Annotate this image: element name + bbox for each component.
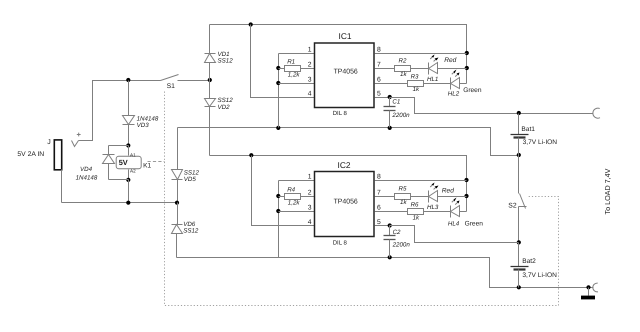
node VD5 ground rail (175, 201, 179, 205)
node VD2 rail to IC2 pin4 riser (249, 153, 253, 157)
diode VD5 (172, 128, 183, 203)
node Bat1 minus (517, 153, 521, 157)
linkage K1 dashes (148, 161, 165, 163)
svg-text:TP4056: TP4056 (334, 68, 358, 75)
node Bat2 plus (517, 240, 521, 244)
wire A1 (128, 146, 130, 156)
node IC2 pin3 (276, 209, 280, 213)
node IC1 pin3 (276, 81, 280, 85)
LED HL1 (429, 55, 467, 75)
node Bat2 minus (517, 285, 521, 289)
IC2 pin numbers (308, 174, 381, 227)
relay K1 coil box (116, 156, 141, 169)
node IC2 right rail HL3 (464, 194, 468, 198)
node Bat1 plus (517, 111, 521, 115)
svg-text:2200n: 2200n (392, 241, 411, 248)
switch S1 blade (161, 75, 179, 81)
wire relay top to VD4 (109, 145, 129, 147)
output plug minus (593, 283, 598, 292)
svg-text:1k: 1k (413, 86, 420, 93)
node relay top (126, 143, 130, 147)
svg-text:7: 7 (377, 62, 381, 69)
svg-text:IC2: IC2 (338, 160, 351, 170)
svg-text:HL4: HL4 (448, 221, 460, 228)
diode VD1 (205, 25, 216, 81)
svg-text:DIL 8: DIL 8 (333, 110, 348, 117)
node C1 bottom (388, 126, 392, 130)
svg-text:HL2: HL2 (448, 90, 460, 97)
resistor R1 (279, 68, 285, 70)
node S1-VD1-VD2 (208, 78, 212, 82)
svg-text:Red: Red (444, 57, 456, 64)
svg-text:1: 1 (308, 47, 312, 54)
node right rail pin8 (465, 51, 469, 55)
svg-text:Green: Green (463, 87, 482, 94)
wire IC2 pin5 (375, 225, 390, 227)
svg-text:TP4056: TP4056 (334, 199, 358, 206)
node R1 left (276, 66, 280, 70)
svg-text:3,7V Li-ION: 3,7V Li-ION (523, 139, 558, 146)
svg-text:IC1: IC1 (339, 31, 352, 41)
svg-text:1k: 1k (413, 214, 420, 221)
diode VD6 (172, 203, 183, 258)
node output minus (586, 285, 590, 289)
svg-text:To LOAD 7,4V: To LOAD 7,4V (603, 168, 612, 214)
resistor R5 (375, 196, 395, 198)
svg-text:C1: C1 (392, 99, 400, 106)
svg-text:5V: 5V (119, 158, 128, 167)
wire IC2 pins 1-3 chain (278, 181, 280, 258)
svg-text:R5: R5 (399, 186, 407, 193)
battery Bat2 (511, 243, 529, 288)
resistor R6 (375, 211, 408, 213)
node C1 top (388, 95, 392, 99)
svg-text:VD5: VD5 (184, 176, 197, 183)
node R4 left (276, 194, 280, 198)
wire pin5 to Bat1 plus (390, 98, 593, 114)
node top rail to pin4 riser (249, 22, 253, 26)
wire IC2 pin1 (279, 180, 315, 182)
capacitor C2 (384, 226, 396, 258)
svg-text:8: 8 (377, 47, 381, 54)
svg-text:S1: S1 (167, 83, 176, 90)
svg-text:SS12: SS12 (218, 58, 234, 65)
svg-text:7: 7 (377, 190, 381, 197)
svg-text:8: 8 (377, 174, 381, 181)
node C2 bottom (388, 255, 392, 259)
svg-text:HL3: HL3 (427, 204, 439, 211)
svg-text:6: 6 (377, 205, 381, 212)
diode VD3 (123, 81, 135, 146)
svg-text:1,2k: 1,2k (288, 71, 301, 78)
node IC2 right rail pin8 (464, 178, 468, 182)
diode VD2 (205, 81, 216, 156)
svg-text:6: 6 (377, 77, 381, 84)
svg-text:VD2: VD2 (218, 104, 231, 111)
IC2 TP4056 body (315, 172, 375, 237)
wire IC2 pin3 stub (279, 211, 315, 213)
svg-text:5: 5 (377, 91, 381, 98)
svg-text:K1: K1 (143, 163, 151, 170)
svg-text:R3: R3 (411, 73, 419, 80)
LED HL2 (451, 70, 467, 90)
svg-text:1: 1 (308, 174, 312, 181)
node C2 top (388, 223, 392, 227)
wire IC2 pin4 riser (252, 156, 315, 226)
plus mark (77, 133, 81, 137)
svg-text:3: 3 (308, 205, 312, 212)
wire plug to S1 (79, 81, 161, 141)
node IC1 gnd chain (276, 126, 280, 130)
svg-text:Bat1: Bat1 (521, 126, 535, 133)
svg-text:R1: R1 (287, 59, 295, 66)
capacitor C1 (384, 98, 396, 128)
svg-text:A2: A2 (130, 169, 136, 174)
svg-text:HL1: HL1 (427, 76, 438, 83)
svg-text:Bat2: Bat2 (522, 258, 536, 265)
Bat2 minus rail (177, 258, 594, 288)
wire IC1 pin8 (375, 53, 467, 55)
wire IC1 pins 1-3 chain (278, 54, 280, 128)
svg-text:VD4: VD4 (80, 166, 93, 173)
wire VD4 bottom (109, 179, 129, 181)
wire IC1 pin5 (375, 97, 390, 99)
resistor R4 (279, 196, 285, 198)
wire IC1 pin1 (279, 53, 315, 55)
svg-text:1,2k: 1,2k (288, 199, 301, 206)
svg-text:1k: 1k (400, 71, 407, 78)
svg-text:5V 2A IN: 5V 2A IN (17, 151, 44, 158)
svg-text:1N4148: 1N4148 (76, 175, 98, 182)
svg-text:S2: S2 (508, 202, 517, 209)
svg-text:3,7V Li-ION: 3,7V Li-ION (522, 272, 557, 279)
VD2 rail to IC2 right side (210, 156, 467, 212)
LED HL3 (429, 183, 467, 203)
ground (588, 288, 590, 296)
svg-text:R2: R2 (399, 58, 407, 65)
battery Bat1 (511, 114, 529, 156)
svg-text:4: 4 (308, 91, 312, 98)
connector J (54, 140, 61, 170)
switch S2 (519, 156, 527, 243)
wire S1 to VD1/VD2 node (178, 80, 210, 82)
node input to VD3 (126, 78, 130, 82)
svg-text:Green: Green (465, 220, 484, 227)
svg-text:J: J (47, 139, 51, 146)
svg-text:C2: C2 (393, 229, 401, 236)
svg-text:R6: R6 (411, 201, 419, 208)
svg-text:Red: Red (442, 187, 454, 194)
svg-text:2200n: 2200n (391, 112, 410, 119)
plug tip contact (72, 141, 79, 147)
top VCC rail (210, 25, 467, 84)
svg-text:1k: 1k (400, 199, 407, 206)
svg-text:R4: R4 (287, 187, 295, 194)
IC1 TP4056 body (315, 43, 375, 108)
resistor R3 (375, 83, 408, 85)
wire IC2 pin8 (375, 180, 467, 182)
Bat1 minus rail (178, 128, 519, 156)
node relay ground (126, 201, 130, 205)
svg-text:DIL 8: DIL 8 (333, 240, 348, 247)
wire relay to ground rail (128, 180, 130, 203)
wire IC1 pin3 stub (279, 83, 315, 85)
linkage S1-S2 dotted (165, 92, 559, 306)
svg-text:2: 2 (308, 190, 312, 197)
svg-text:SS12: SS12 (183, 228, 199, 235)
wire ground rail (62, 202, 178, 204)
svg-text:VD3: VD3 (137, 122, 150, 129)
node relay bottom (126, 178, 130, 182)
wire pin5 to Bat2 plus (390, 226, 519, 243)
svg-text:A1: A1 (130, 153, 136, 158)
svg-text:2: 2 (308, 62, 312, 69)
diode VD4 (103, 146, 115, 180)
wire J minus to ground rail (61, 170, 63, 203)
node right rail HL1 (465, 66, 469, 70)
LED HL4 (451, 198, 467, 218)
output plug plus (593, 108, 600, 118)
IC1 pin numbers (308, 47, 381, 98)
resistor R2 (375, 68, 395, 70)
wire IC1 pin4 riser (251, 25, 315, 98)
wire A2 (128, 170, 130, 180)
svg-text:3: 3 (308, 77, 312, 84)
svg-text:4: 4 (308, 219, 312, 226)
